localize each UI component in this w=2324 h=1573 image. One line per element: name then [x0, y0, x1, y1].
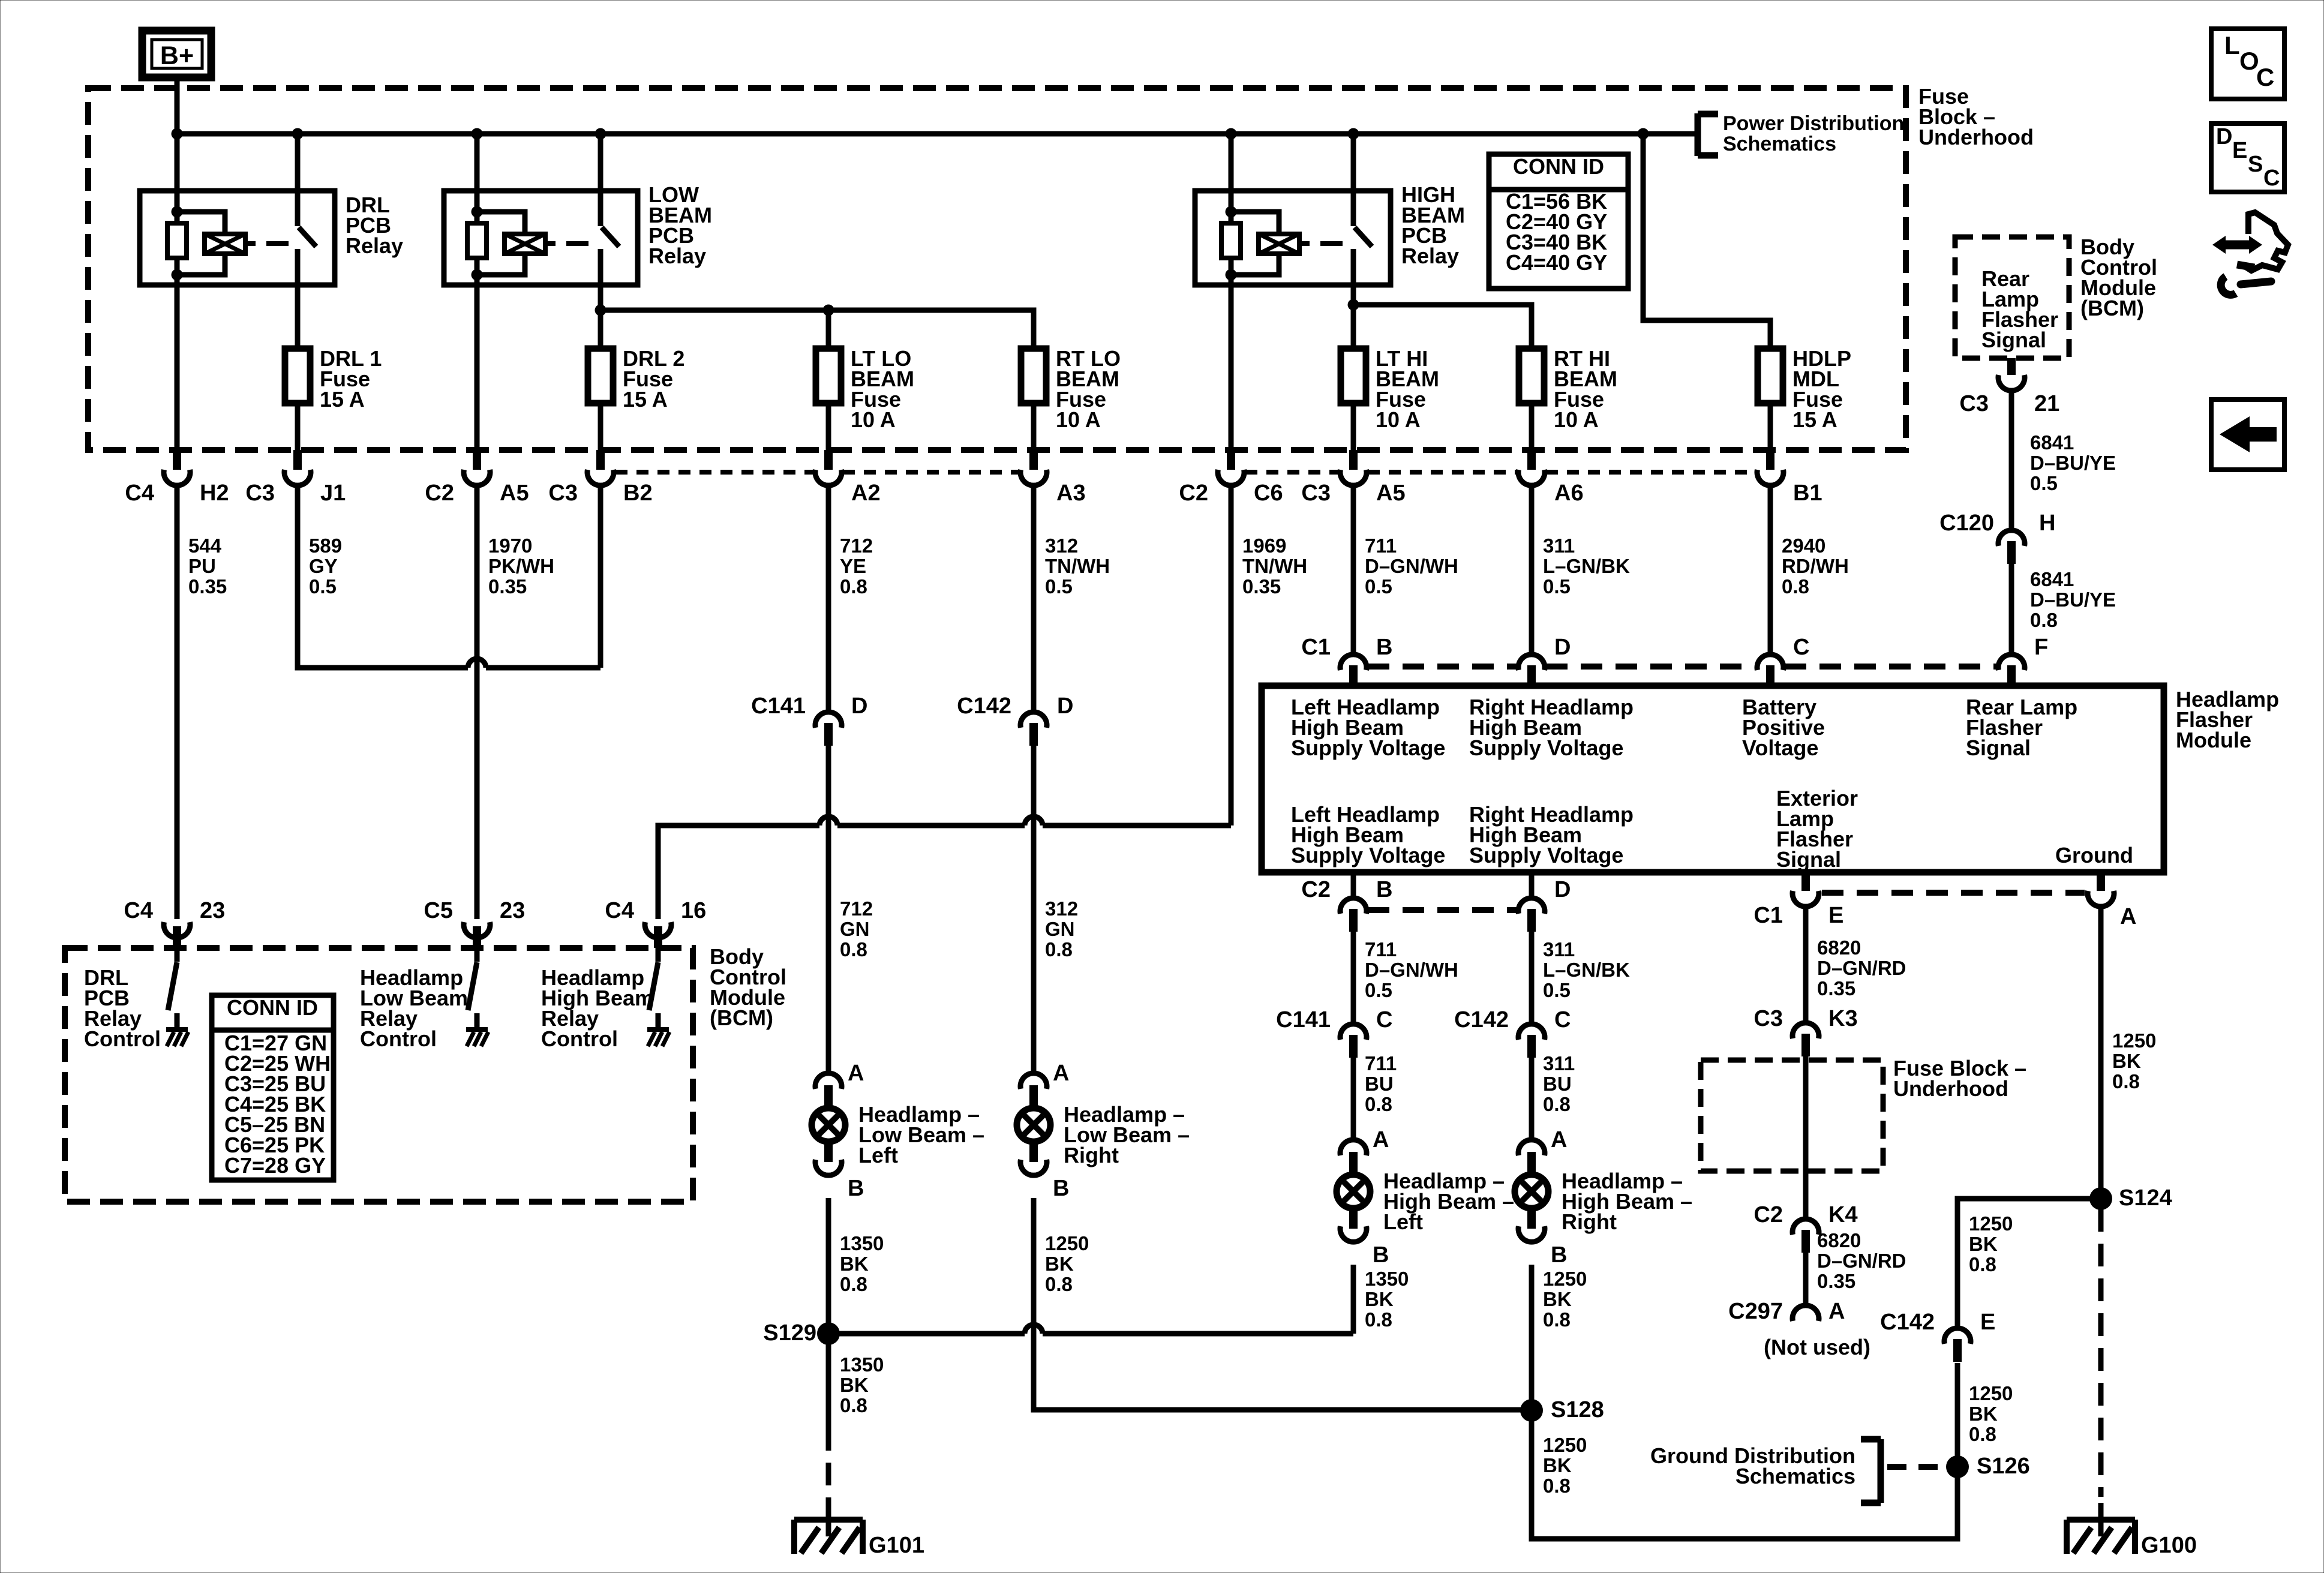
svg-text:Right: Right	[1562, 1209, 1617, 1234]
svg-text:L–GN/BK: L–GN/BK	[1543, 555, 1630, 577]
svg-text:C7=28 GY: C7=28 GY	[224, 1153, 326, 1178]
wire 1250 BK HLFM A to S124	[2098, 906, 2104, 1199]
lamp headlamp high beam right	[1518, 1140, 1545, 1155]
svg-text:1250: 1250	[1969, 1212, 2013, 1235]
svg-text:A: A	[1373, 1127, 1389, 1152]
svg-text:0.8: 0.8	[1782, 575, 1809, 598]
relay switch contact	[598, 134, 603, 226]
svg-text:Right: Right	[1064, 1143, 1119, 1167]
svg-text:C: C	[1376, 1007, 1392, 1032]
BCM relay driver switch	[656, 948, 661, 962]
connector HLFM C1 pin F	[2007, 665, 2016, 687]
svg-text:23: 23	[200, 898, 225, 923]
svg-text:0.5: 0.5	[1365, 979, 1392, 1001]
icon LOC box	[2211, 29, 2284, 99]
svg-text:A6: A6	[1554, 481, 1584, 506]
svg-text:S129: S129	[763, 1320, 816, 1346]
svg-text:(BCM): (BCM)	[2080, 296, 2144, 320]
wire 1969 TN/WH C6 to BCM C4-16	[1229, 485, 1234, 825]
fuse DRL 2 15A	[598, 403, 603, 451]
svg-text:D: D	[1554, 877, 1571, 902]
connector fuse block terminal A5	[473, 450, 481, 470]
svg-text:Control: Control	[360, 1026, 437, 1051]
connector ID table top	[1489, 154, 1628, 289]
svg-text:C3: C3	[1959, 391, 1989, 416]
connector HLFM C1 pin C	[1766, 665, 1774, 687]
svg-text:Module: Module	[2176, 728, 2251, 752]
svg-text:BK: BK	[1045, 1253, 1074, 1275]
icon wrench pointer	[2224, 241, 2251, 250]
svg-text:311: 311	[1543, 938, 1575, 960]
svg-text:6820: 6820	[1817, 936, 1861, 959]
svg-text:A2: A2	[851, 481, 881, 506]
svg-text:E: E	[2232, 138, 2247, 163]
wire 311 to HLFM pin D	[1529, 485, 1535, 652]
svg-text:Relay: Relay	[1401, 244, 1459, 268]
svg-text:BK: BK	[1969, 1403, 1998, 1425]
icon DESC box	[2211, 124, 2284, 192]
svg-text:0.5: 0.5	[2030, 472, 2058, 494]
relay coil resistor	[175, 212, 180, 223]
svg-text:0.35: 0.35	[188, 575, 227, 598]
svg-text:16: 16	[681, 898, 706, 923]
svg-text:B: B	[1373, 1242, 1389, 1268]
svg-text:Relay: Relay	[648, 244, 706, 268]
svg-text:21: 21	[2034, 391, 2059, 416]
svg-text:C2: C2	[1179, 481, 1208, 506]
svg-text:BK: BK	[840, 1374, 869, 1396]
svg-text:D–BU/YE: D–BU/YE	[2030, 452, 2116, 474]
svg-text:312: 312	[1045, 897, 1078, 920]
svg-text:E: E	[1980, 1310, 1995, 1335]
fuse DRL 1 15A	[295, 403, 301, 451]
svg-text:C3: C3	[1301, 481, 1331, 506]
svg-text:712: 712	[840, 535, 873, 557]
wire relay3 coil to connector C6	[1229, 275, 1234, 451]
wire 312 GN to right low beam lamp	[1031, 746, 1037, 1073]
svg-text:1250: 1250	[2112, 1029, 2156, 1052]
svg-text:K3: K3	[1828, 1006, 1858, 1031]
svg-text:C2: C2	[425, 481, 454, 506]
svg-text:D–GN/RD: D–GN/RD	[1817, 1250, 1906, 1272]
svg-text:C4: C4	[124, 898, 153, 923]
connector C141 D	[824, 723, 833, 746]
svg-text:6820: 6820	[1817, 1229, 1861, 1251]
svg-text:1350: 1350	[1365, 1268, 1409, 1290]
wire 711 D-GN/WH HLFM B to C141	[1351, 932, 1356, 1024]
battery feed B+ terminal	[142, 31, 211, 77]
svg-text:A5: A5	[1376, 481, 1406, 506]
wire 2940 to HLFM pin C	[1768, 485, 1773, 652]
relay switch contact	[295, 134, 301, 226]
svg-text:TN/WH: TN/WH	[1242, 555, 1307, 577]
svg-text:C4: C4	[125, 481, 154, 506]
svg-text:0.8: 0.8	[1365, 1093, 1392, 1115]
wire 1970 PK/WH A5 to BCM	[475, 485, 480, 919]
fuse RT HI BEAM 10A	[1529, 403, 1535, 451]
svg-text:PK/WH: PK/WH	[488, 555, 554, 577]
svg-text:C1: C1	[1753, 903, 1783, 928]
BCM relay driver switch	[475, 948, 480, 962]
wire 712 YE A2 to C141	[826, 485, 831, 712]
wire 1250 BK high beam right return	[1529, 1265, 1535, 1410]
svg-text:BU: BU	[1365, 1073, 1394, 1095]
relay box HIGH	[1195, 191, 1391, 285]
svg-text:0.8: 0.8	[1969, 1423, 1996, 1445]
wire 6841 D-BU/YE 0.5	[2009, 391, 2014, 530]
svg-text:PU: PU	[188, 555, 216, 577]
svg-text:F: F	[2034, 635, 2048, 660]
fuse LT HI BEAM 10A	[1351, 403, 1356, 451]
svg-text:Control: Control	[541, 1026, 618, 1051]
svg-text:S124: S124	[2119, 1185, 2172, 1211]
svg-text:Control: Control	[84, 1026, 161, 1051]
svg-text:0.8: 0.8	[1045, 938, 1073, 960]
svg-text:S126: S126	[1977, 1454, 2030, 1479]
svg-text:C: C	[1793, 635, 1809, 660]
svg-text:S: S	[2248, 152, 2263, 177]
fuse RT LO BEAM 10A	[1031, 403, 1037, 451]
connector fuse block terminal A3	[1029, 450, 1038, 470]
svg-text:BK: BK	[840, 1253, 869, 1275]
connector C1 dashed group line	[1368, 664, 1517, 670]
relay coil feed wire	[475, 134, 480, 212]
relay coil winding	[177, 212, 225, 234]
wire 6820 D-GN/RD HLFM E to K3	[1803, 906, 1809, 1023]
svg-text:Left: Left	[858, 1143, 898, 1167]
relay coil-contact link dash	[1299, 241, 1310, 246]
svg-text:1969: 1969	[1242, 535, 1286, 557]
connector C3 group dotted line	[615, 470, 814, 475]
svg-text:Ground: Ground	[2055, 843, 2133, 867]
svg-text:C141: C141	[751, 694, 806, 719]
splice S126	[1946, 1455, 1969, 1478]
svg-text:0.5: 0.5	[1543, 979, 1571, 1001]
svg-text:0.8: 0.8	[1365, 1308, 1392, 1331]
svg-text:C: C	[1554, 1007, 1571, 1032]
svg-text:1350: 1350	[840, 1232, 884, 1254]
connector fuse block terminal C6	[1227, 450, 1235, 470]
connector fuse block terminal A6	[1527, 450, 1536, 470]
svg-text:C3: C3	[548, 481, 578, 506]
relay coil-contact link dash	[545, 241, 556, 246]
svg-text:0.8: 0.8	[1969, 1253, 1996, 1275]
fuse block underhood small dashed box	[1701, 1060, 1883, 1171]
svg-text:CONN ID: CONN ID	[1513, 154, 1604, 179]
wire relay2 switch to low beam feed	[598, 249, 603, 310]
connector HLFM pin A ground	[2097, 874, 2105, 891]
connector E-A dashed line	[1822, 890, 2085, 896]
svg-text:BK: BK	[2112, 1050, 2141, 1072]
ground G100	[2067, 1517, 2135, 1523]
connector HLFM C2 pin B	[1351, 875, 1356, 898]
svg-text:A3: A3	[1056, 481, 1086, 506]
svg-text:BK: BK	[1543, 1454, 1572, 1476]
svg-text:C120: C120	[1939, 511, 1994, 536]
svg-text:RD/WH: RD/WH	[1782, 555, 1849, 577]
wire 312 TN/WH A3 to C142	[1031, 485, 1037, 712]
svg-text:C4=40 GY: C4=40 GY	[1506, 250, 1607, 275]
svg-text:0.5: 0.5	[1045, 575, 1073, 598]
relay box DRL	[140, 191, 335, 285]
svg-text:Underhood: Underhood	[1893, 1076, 2008, 1101]
power bus wire	[177, 131, 1698, 137]
fuse HDLP MDL 15A	[1768, 403, 1773, 451]
svg-text:Supply Voltage: Supply Voltage	[1291, 736, 1445, 760]
svg-text:Supply Voltage: Supply Voltage	[1469, 736, 1623, 760]
connector fuse block terminal B2	[596, 450, 605, 470]
svg-text:544: 544	[188, 535, 222, 557]
connector BCM C5 23	[464, 922, 490, 938]
svg-text:(BCM): (BCM)	[710, 1005, 773, 1030]
svg-text:C3: C3	[245, 481, 275, 506]
svg-text:S128: S128	[1551, 1397, 1604, 1422]
svg-text:0.8: 0.8	[840, 938, 867, 960]
svg-text:G101: G101	[869, 1533, 924, 1558]
BCM rear lamp flasher dashed box	[1955, 237, 2069, 358]
wire 712 GN to left low beam lamp	[826, 746, 831, 1073]
svg-text:1970: 1970	[488, 535, 532, 557]
ground chassis small	[466, 1027, 488, 1032]
connector C2 K4	[1801, 1230, 1810, 1253]
svg-text:A: A	[848, 1061, 864, 1086]
svg-text:Power Distribution: Power Distribution	[1723, 112, 1904, 135]
svg-text:0.8: 0.8	[1543, 1093, 1571, 1115]
lamp headlamp low beam right	[1020, 1073, 1047, 1089]
splice S128	[1520, 1399, 1543, 1422]
svg-text:0.35: 0.35	[488, 575, 527, 598]
svg-text:C: C	[2256, 63, 2274, 91]
svg-text:0.35: 0.35	[1242, 575, 1281, 598]
svg-text:D: D	[851, 694, 867, 719]
svg-text:C142: C142	[1454, 1007, 1509, 1032]
svg-text:711: 711	[1365, 938, 1397, 960]
svg-text:Voltage: Voltage	[1742, 736, 1818, 760]
svg-text:D–GN/RD: D–GN/RD	[1817, 957, 1906, 979]
svg-text:BK: BK	[1969, 1233, 1998, 1255]
body control module dashed box	[65, 948, 693, 1202]
svg-text:C1: C1	[1301, 635, 1331, 660]
svg-text:(Not used): (Not used)	[1764, 1335, 1870, 1359]
svg-text:D: D	[1554, 635, 1571, 660]
wire relay1 switch to DRL1 fuse	[295, 249, 301, 349]
wire 1350 BK lamp left to S129	[826, 1198, 831, 1334]
svg-text:1250: 1250	[1045, 1232, 1089, 1254]
svg-text:Supply Voltage: Supply Voltage	[1469, 843, 1623, 867]
svg-text:C5: C5	[424, 898, 453, 923]
svg-text:Signal: Signal	[1966, 736, 2031, 760]
wire 711 BU to left high beam lamp	[1351, 1058, 1356, 1140]
svg-text:0.8: 0.8	[840, 1273, 867, 1295]
svg-text:23: 23	[500, 898, 525, 923]
svg-text:10 A: 10 A	[1554, 407, 1599, 432]
connector C2/C3 group dotted line right	[1245, 470, 1339, 475]
connector HLFM C2 pin D	[1529, 875, 1535, 898]
wire S129 to high beam left lamp return	[828, 1331, 1025, 1337]
svg-text:G100: G100	[2141, 1533, 2197, 1558]
svg-text:0.8: 0.8	[2112, 1070, 2140, 1092]
ground G101	[794, 1517, 863, 1523]
connector BCM C4 23	[164, 922, 190, 938]
connector BCM C3 pin 21	[2007, 358, 2016, 375]
wire 311 L-GN/BK HLFM D to C142	[1529, 932, 1535, 1024]
svg-text:2940: 2940	[1782, 535, 1825, 557]
svg-text:6841: 6841	[2030, 431, 2074, 454]
svg-text:B: B	[1376, 877, 1392, 902]
svg-text:0.8: 0.8	[840, 575, 867, 598]
svg-text:H: H	[2039, 511, 2055, 536]
svg-text:A: A	[2120, 904, 2136, 929]
wire 1350 BK high beam left return	[1351, 1265, 1356, 1334]
svg-text:A: A	[1053, 1061, 1069, 1086]
svg-text:B1: B1	[1793, 481, 1822, 506]
svg-text:Schematics: Schematics	[1723, 133, 1836, 155]
svg-text:B: B	[848, 1176, 864, 1201]
svg-text:0.5: 0.5	[1543, 575, 1571, 598]
svg-text:GN: GN	[1045, 918, 1075, 940]
svg-text:1250: 1250	[1543, 1268, 1587, 1290]
relay switch contact	[1351, 134, 1356, 226]
connector C141 C	[1349, 1035, 1358, 1058]
svg-text:1250: 1250	[1543, 1434, 1587, 1456]
connector C142 E	[1953, 1339, 1962, 1362]
fuse LT LO BEAM 10A	[826, 403, 831, 451]
svg-text:711: 711	[1365, 1052, 1397, 1074]
wire S128 to S126 return	[1532, 1363, 1957, 1539]
svg-text:6841: 6841	[2030, 568, 2074, 590]
ground chassis small	[647, 1027, 669, 1032]
connector C120 H	[2007, 541, 2016, 564]
connector HLFM C1 pin B	[1349, 665, 1358, 687]
svg-text:TN/WH: TN/WH	[1045, 555, 1110, 577]
svg-text:E: E	[1828, 903, 1843, 928]
svg-text:C142: C142	[957, 694, 1011, 719]
relay coil winding	[477, 212, 525, 234]
connector C142 C	[1527, 1035, 1536, 1058]
svg-text:10 A: 10 A	[1376, 407, 1421, 432]
svg-text:C142: C142	[1880, 1310, 1935, 1335]
lamp headlamp high beam left	[1340, 1140, 1367, 1155]
svg-text:L–GN/BK: L–GN/BK	[1543, 959, 1630, 981]
BCM relay driver switch	[175, 948, 180, 962]
svg-text:GY: GY	[309, 555, 338, 577]
svg-text:C4: C4	[605, 898, 634, 923]
connector C3 K3	[1801, 1034, 1810, 1056]
svg-text:BU: BU	[1543, 1073, 1572, 1095]
svg-text:0.8: 0.8	[840, 1394, 867, 1416]
relay coil-contact link dash	[245, 241, 256, 246]
svg-text:B: B	[1376, 635, 1392, 660]
svg-text:10 A: 10 A	[851, 407, 896, 432]
svg-text:10 A: 10 A	[1056, 407, 1101, 432]
svg-text:GN: GN	[840, 918, 870, 940]
relay coil resistor	[475, 212, 480, 223]
svg-text:Signal: Signal	[1981, 328, 2046, 352]
ground chassis small	[166, 1027, 188, 1032]
wire 589 GY J1 to B2 tie	[298, 485, 468, 668]
svg-text:311: 311	[1543, 535, 1575, 557]
svg-text:D–GN/WH: D–GN/WH	[1365, 959, 1458, 981]
svg-text:15 A: 15 A	[320, 387, 365, 412]
svg-text:Signal: Signal	[1776, 847, 1841, 872]
svg-text:C3: C3	[1753, 1006, 1783, 1031]
dashed link to S126	[1887, 1464, 1944, 1470]
svg-text:A: A	[1828, 1299, 1845, 1324]
svg-text:L: L	[2224, 31, 2240, 59]
bracket Power Distribution Schematics	[1695, 113, 1701, 156]
svg-text:C141: C141	[1276, 1007, 1331, 1032]
svg-text:C: C	[2263, 166, 2280, 191]
wire bus to HDLP MDL fuse	[1643, 134, 1770, 349]
connector fuse block terminal A2	[824, 450, 833, 470]
low beam feed wire	[600, 310, 1034, 349]
svg-text:15 A: 15 A	[1792, 407, 1837, 432]
fuse block underhood dashed box	[88, 88, 1906, 450]
splice S124	[2089, 1187, 2112, 1210]
svg-text:C2: C2	[1753, 1202, 1783, 1227]
svg-text:C297: C297	[1728, 1299, 1783, 1324]
svg-text:YE: YE	[840, 555, 866, 577]
svg-text:BK: BK	[1365, 1288, 1394, 1310]
svg-text:CONN ID: CONN ID	[227, 995, 318, 1020]
svg-text:312: 312	[1045, 535, 1078, 557]
svg-text:J1: J1	[320, 481, 346, 506]
wire relay2 coil to connector A5	[475, 275, 480, 451]
svg-text:0.5: 0.5	[309, 575, 337, 598]
svg-text:Underhood: Underhood	[1918, 125, 2034, 149]
svg-text:Supply Voltage: Supply Voltage	[1291, 843, 1445, 867]
wire K3 to K4 through fuse block	[1803, 1056, 1809, 1219]
wire B+ to bus	[175, 77, 180, 134]
svg-text:0.8: 0.8	[1543, 1308, 1571, 1331]
high beam feed wire	[1353, 305, 1532, 349]
wire 6820 D-GN/RD K4 to C297	[1803, 1253, 1809, 1304]
connector ID table BCM	[212, 995, 334, 1180]
relay coil feed wire	[175, 134, 180, 212]
svg-text:0.5: 0.5	[1365, 575, 1392, 598]
svg-text:D–BU/YE: D–BU/YE	[2030, 589, 2116, 611]
wire relay3 switch to high beam feed	[1351, 249, 1356, 305]
svg-text:D: D	[2216, 124, 2232, 149]
headlamp flasher module box	[1262, 686, 2164, 872]
svg-text:711: 711	[1365, 535, 1397, 557]
svg-text:B+: B+	[160, 41, 194, 70]
connector HLFM C1 pin D	[1527, 665, 1536, 687]
svg-text:311: 311	[1543, 1052, 1575, 1074]
svg-text:H2: H2	[200, 481, 229, 506]
connector fuse block terminal B1	[1766, 450, 1774, 470]
svg-text:712: 712	[840, 897, 873, 920]
svg-text:B: B	[1551, 1242, 1567, 1268]
svg-text:0.35: 0.35	[1817, 1270, 1855, 1292]
connector fuse block terminal J1	[293, 450, 302, 470]
connector HLFM C1 pin E	[1801, 874, 1810, 891]
wire S124 to C142 E	[1957, 1199, 2101, 1328]
svg-text:15 A: 15 A	[623, 387, 668, 412]
svg-text:D: D	[1057, 694, 1073, 719]
svg-text:1250: 1250	[1969, 1382, 2013, 1404]
svg-text:0.35: 0.35	[1817, 977, 1855, 999]
relay box LOW	[444, 191, 638, 285]
svg-text:A: A	[1551, 1127, 1567, 1152]
relay coil resistor	[1229, 212, 1234, 223]
wire 311 BU to right high beam lamp	[1529, 1058, 1535, 1140]
svg-text:B: B	[1053, 1176, 1069, 1201]
svg-text:Schematics: Schematics	[1736, 1464, 1855, 1488]
wire relay1 coil to connector H2	[175, 275, 180, 451]
connector C297 A not used	[1792, 1305, 1819, 1321]
svg-text:K4: K4	[1828, 1202, 1858, 1227]
